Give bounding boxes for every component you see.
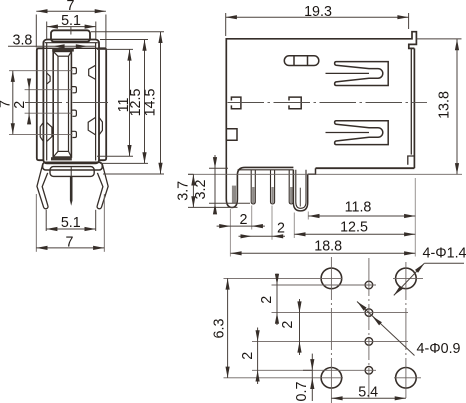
front view vertical center tick <box>70 27 72 35</box>
dimension 18.8 <box>230 238 415 255</box>
dimension 7 left (contacts) <box>0 71 73 135</box>
front view tongue dark band bottom <box>51 157 72 160</box>
dimension 2 footprint #2 <box>280 299 302 355</box>
front view right leg <box>97 164 108 209</box>
side view clip window 2 <box>289 97 301 109</box>
svg-text:6.3: 6.3 <box>211 319 227 339</box>
footprint ext line small row 3 <box>252 340 408 342</box>
svg-text:4-Φ1.4: 4-Φ1.4 <box>423 245 466 261</box>
front view top tab <box>51 30 90 42</box>
footprint centerline vertical small column <box>368 258 370 398</box>
front view side ears <box>37 48 106 160</box>
svg-text:2: 2 <box>240 352 256 360</box>
footprint ext line small row 2 <box>272 312 409 314</box>
svg-text:3.2: 3.2 <box>193 180 209 200</box>
front view left leg <box>37 164 48 209</box>
side view pin 2 <box>271 170 275 204</box>
footprint hole small 2 <box>365 309 373 317</box>
side view pin 1 <box>251 170 255 204</box>
dimension 7 bottom <box>36 194 104 252</box>
svg-text:2: 2 <box>12 101 28 109</box>
side view latch fork upper <box>326 62 389 86</box>
dimension 6.3 <box>211 278 229 377</box>
dimension 11.8 <box>308 178 415 257</box>
dimension 2 footprint #1 <box>259 274 279 326</box>
dimension 13.8 <box>417 39 462 174</box>
front view bottom collar <box>43 162 103 176</box>
dimension 5.1 bottom <box>46 210 95 231</box>
front view wall dimple upper-left <box>47 73 50 84</box>
dimension 12.5 bottom <box>294 213 415 239</box>
footprint centerline vertical right column <box>405 262 407 398</box>
side view pin 3 <box>289 170 293 204</box>
front view ear notch right <box>99 117 102 134</box>
front view horizontal centerline <box>25 102 108 104</box>
side view shield leg (big) <box>293 170 307 211</box>
dimension 5.1 top <box>47 13 96 39</box>
footprint hole big TR <box>396 268 417 289</box>
svg-text:7: 7 <box>66 234 74 250</box>
svg-text:2: 2 <box>240 212 248 228</box>
dimension 14.5 right <box>91 32 164 174</box>
side view bottom shell edge <box>226 140 293 208</box>
footprint hole big BL <box>321 368 342 389</box>
front view center pin <box>70 167 73 206</box>
side view clip window 1 <box>231 97 241 109</box>
svg-text:5.4: 5.4 <box>358 385 378 401</box>
svg-text:3.7: 3.7 <box>175 181 191 201</box>
footprint ext line small row 4 <box>252 369 376 371</box>
footprint hole big BR <box>396 368 417 389</box>
front view contact 3 <box>72 110 77 116</box>
front view tongue dark band top <box>52 49 74 52</box>
dimension 3.2 <box>193 155 250 214</box>
front view wall dimple lower-left <box>47 123 52 142</box>
side view horizontal centerline <box>228 102 428 104</box>
dimension 19.3 <box>226 4 409 36</box>
dimension 5.4 <box>331 385 406 401</box>
svg-text:18.8: 18.8 <box>314 238 342 254</box>
front view shell body <box>43 40 99 164</box>
svg-text:0.7: 0.7 <box>294 382 310 402</box>
side view left leg grey fill <box>232 186 236 204</box>
front view ear notch left <box>40 122 43 141</box>
svg-text:13.8: 13.8 <box>437 91 453 119</box>
front view tongue <box>53 51 71 157</box>
dimension 3.7 <box>175 174 237 207</box>
svg-text:7: 7 <box>67 0 75 14</box>
dimension 2 footprint #3 <box>240 328 260 385</box>
front view wall dimple lower-right <box>88 117 95 134</box>
pcb surface line <box>188 173 462 175</box>
footprint centerline horizontal bottom row <box>224 377 422 379</box>
dimension 11 right <box>97 49 133 156</box>
dimension 12.5 right <box>100 40 148 164</box>
svg-text:4-Φ0.9: 4-Φ0.9 <box>417 341 461 357</box>
svg-text:2: 2 <box>259 296 275 304</box>
footprint hole big TL <box>321 268 342 289</box>
dimension 2 left (contact pitch) <box>12 79 73 125</box>
front view contact 1 <box>72 68 77 74</box>
svg-text:5.1: 5.1 <box>61 215 81 231</box>
side view small square tab <box>226 129 237 141</box>
svg-text:3.8: 3.8 <box>13 33 33 49</box>
footprint ext line small row 1 <box>272 284 377 286</box>
svg-text:2: 2 <box>280 321 296 329</box>
footprint hole small 4 <box>365 367 373 375</box>
footprint centerline vertical left column <box>330 257 332 403</box>
svg-text:12.5: 12.5 <box>340 220 368 236</box>
footprint centerline horizontal top row <box>224 277 424 279</box>
footprint hole small 3 <box>365 338 373 346</box>
side view oval slot <box>284 56 319 66</box>
svg-text:2: 2 <box>277 221 285 237</box>
svg-text:19.3: 19.3 <box>304 4 332 20</box>
dimension 7 top <box>36 0 106 48</box>
dimension 2 pins #2 <box>239 206 286 240</box>
side view body outline <box>226 32 416 175</box>
label 4-phi0.9 <box>357 302 461 358</box>
side view latch fork lower <box>326 121 389 145</box>
dimension 3.8 <box>8 33 96 49</box>
svg-text:14.5: 14.5 <box>143 89 159 117</box>
front view contact 2 <box>72 87 77 93</box>
label 4-phi1.4 <box>394 245 466 295</box>
front view wall dimple upper-right <box>89 65 96 79</box>
footprint hole small 1 <box>365 281 373 289</box>
svg-text:11.8: 11.8 <box>345 200 372 216</box>
dimension 0.7 <box>294 354 315 402</box>
front view contact 4 <box>72 131 77 137</box>
dimension 2 pins #1 <box>217 206 265 257</box>
